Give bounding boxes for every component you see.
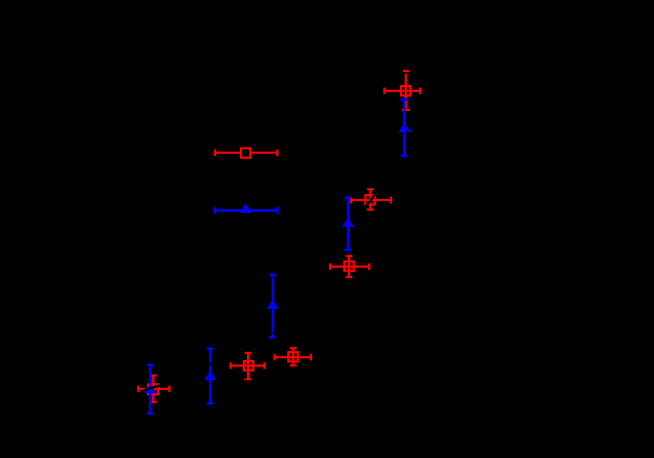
red point G: horizontal error bar — [330, 263, 369, 270]
blue point B: filled triangle marker — [240, 203, 252, 213]
blue point F: filled triangle marker — [342, 218, 354, 227]
blue point K: vertical error bar — [207, 349, 214, 404]
red point E: open square marker — [365, 195, 374, 204]
blue point H: vertical error bar — [269, 275, 277, 337]
black notch on K error bar — [209, 363, 213, 365]
red point G: vertical error bar — [346, 256, 353, 277]
blue point D: vertical error bar — [401, 100, 408, 156]
black slash through point E — [366, 194, 376, 207]
red point L: vertical error bar — [150, 375, 157, 402]
red point J: horizontal error bar — [275, 354, 311, 361]
black notch on H error bar — [273, 331, 275, 334]
blue point B: horizontal error bar — [215, 207, 278, 214]
black slash through point D — [405, 129, 412, 134]
red point G: open square marker — [344, 261, 353, 270]
red point I: vertical error bar — [245, 353, 252, 379]
blue point F: vertical error bar — [344, 198, 351, 250]
black slash through point L — [143, 386, 160, 391]
blue point H: filled triangle marker — [267, 299, 279, 309]
red point L: horizontal error bar — [138, 386, 169, 393]
red point C: vertical error bar — [402, 71, 409, 110]
blue point L2: filled triangle marker — [144, 384, 156, 394]
red point E: vertical error bar — [367, 189, 374, 209]
blue point K: filled triangle marker — [204, 371, 216, 380]
red point C: open square marker — [401, 86, 410, 95]
red point I: open square marker — [244, 361, 253, 370]
blue point L2: vertical error bar — [147, 365, 154, 413]
red point L: open square marker — [148, 384, 158, 394]
blue point D: filled triangle marker — [398, 123, 410, 132]
red point A: open square marker — [241, 148, 250, 157]
red point C: horizontal error bar — [384, 88, 420, 95]
red point J: vertical error bar — [290, 348, 297, 366]
blue corner speck of point D triangle — [408, 129, 411, 132]
red point E: horizontal error bar — [351, 197, 391, 204]
red point J: open square marker — [288, 352, 297, 361]
red point I: horizontal error bar — [231, 362, 265, 369]
red point A: horizontal error bar with gap behind marker — [215, 149, 277, 156]
